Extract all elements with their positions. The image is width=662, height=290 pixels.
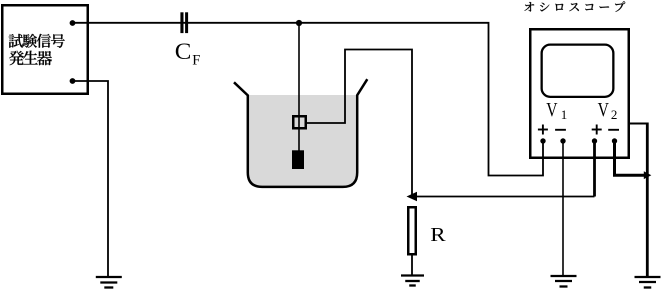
- label 試験信号: [9, 34, 65, 48]
- resistor R body: [408, 207, 416, 254]
- svg-text:R: R: [430, 223, 446, 245]
- right ground bus wire: [646, 123, 649, 277]
- arrow junction at resistor top node: [407, 192, 418, 202]
- wire: ring electrode over beaker down to resistor node: [306, 50, 412, 197]
- junction node at CF output: [296, 20, 302, 26]
- svg-text:1: 1: [561, 107, 568, 122]
- black electrode in beaker: [292, 150, 304, 169]
- wire: V2+ down to resistor wire: [593, 141, 596, 197]
- ring electrode (open square) in beaker: [293, 116, 306, 128]
- terminal V1-: [560, 138, 565, 143]
- wire: generator output through CF to oscilloscope V1+: [73, 23, 544, 176]
- beaker outline with pour lips: [234, 79, 367, 187]
- svg-text:V: V: [598, 98, 609, 120]
- ground (resistor): [401, 276, 424, 286]
- svg-text:F: F: [192, 53, 200, 69]
- wire: oscilloscope case to right bus: [630, 123, 648, 125]
- label 発生器: [9, 51, 52, 66]
- wire: V1- to ground: [562, 141, 564, 276]
- oscilloscope screen: [542, 45, 614, 97]
- svg-text:V: V: [546, 98, 557, 120]
- generator output terminal node: [70, 20, 76, 26]
- polarity mark + (V2): [592, 125, 602, 135]
- ground (signal generator): [96, 277, 122, 288]
- ground (right bus): [635, 277, 661, 288]
- terminal V1+: [540, 138, 545, 143]
- svg-text:C: C: [175, 40, 192, 65]
- label オシロスコープ: [524, 1, 625, 11]
- label CF: [175, 40, 200, 69]
- wire: generator to ground: [73, 81, 109, 277]
- capacitor CF plates: [180, 12, 188, 33]
- polarity mark - (V2): [608, 129, 619, 131]
- label V2: [598, 98, 618, 122]
- wire: resistor node to oscilloscope V2+: [412, 196, 595, 198]
- wire: resistor bottom lead to ground: [411, 255, 413, 275]
- terminal V2-: [612, 138, 617, 143]
- ground (V1-): [551, 276, 577, 287]
- signal generator box (試験信号発生器): [2, 5, 88, 94]
- beaker liquid (gray): [249, 95, 357, 186]
- label V1: [546, 98, 567, 122]
- wire: V2- to right ground bus: [615, 141, 645, 175]
- svg-text:2: 2: [611, 107, 618, 122]
- wire: junction down to immersed black electrode: [298, 23, 300, 151]
- arrow junction on right bus: [644, 171, 652, 179]
- polarity mark + (V1): [538, 125, 548, 135]
- generator ground-side terminal node: [70, 78, 76, 84]
- oscilloscope box: [530, 29, 629, 158]
- polarity mark - (V1): [555, 129, 566, 131]
- terminal V2+: [592, 138, 597, 143]
